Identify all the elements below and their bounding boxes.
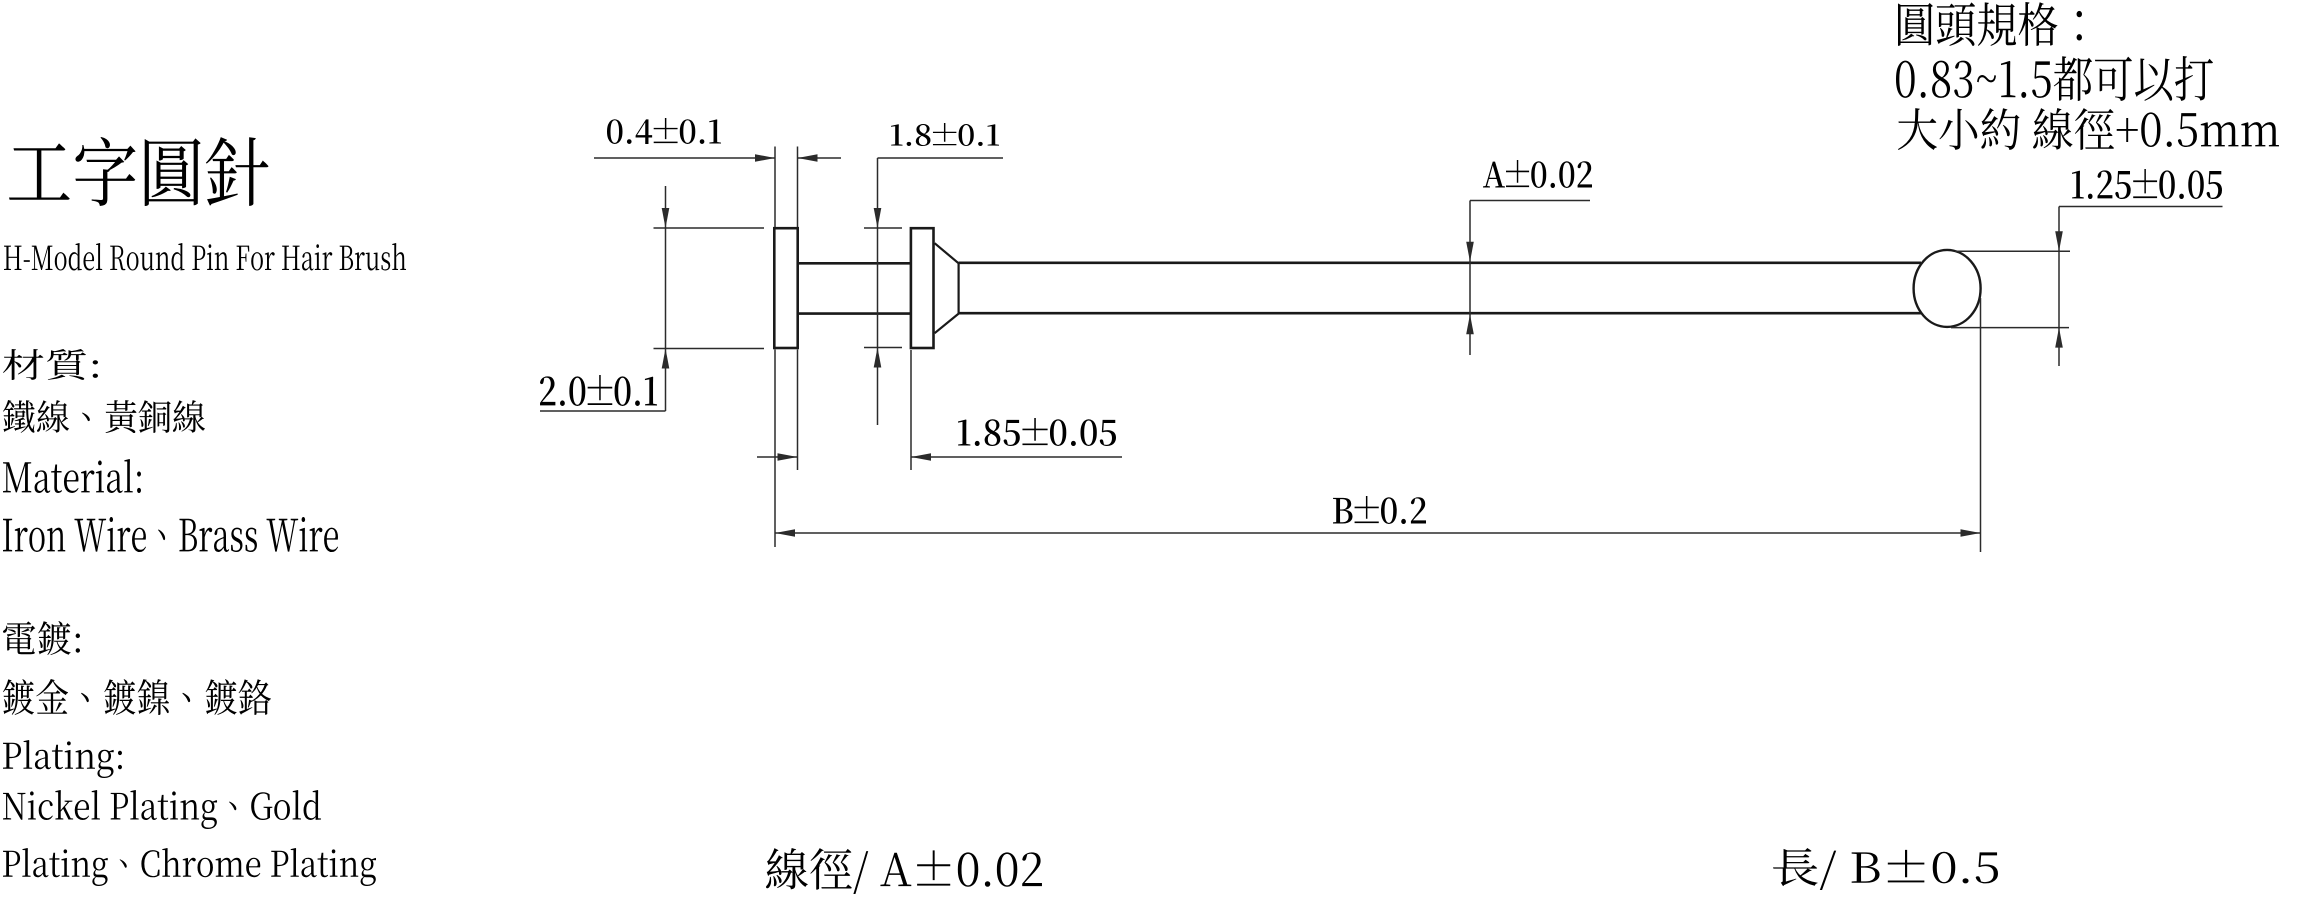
label Plating、Chrome Plating: [3, 848, 376, 886]
dimension A±0.02 leader and arrows: [1470, 200, 1590, 202]
pin flange 1 (left disc): [774, 228, 797, 348]
dimension text 1.8±0.1: [891, 123, 999, 146]
note 圓頭規格:: [1898, 2, 2082, 46]
extension lines at flange 1 edges (bottom, to B and 1.85): [774, 350, 776, 548]
round head ball: [1914, 250, 1981, 327]
label Nickel Plating、Gold: [3, 790, 321, 829]
pin neck between flanges: [798, 262, 911, 265]
cone transition after flange 2: [935, 243, 959, 333]
dimension text A±0.02: [1483, 160, 1592, 188]
note 大小約 線徑+0.5mm: [1898, 108, 2279, 150]
label 材質:: [3, 349, 98, 380]
note 0.83~1.5都可以打: [1896, 56, 2213, 101]
label Material:: [3, 459, 141, 493]
extension line at ball right edge: [1980, 298, 1982, 552]
callout 長/ B±0.5: [1773, 848, 1998, 890]
dimension 0.4±0.1 lines and arrows: [594, 157, 775, 159]
callout 線徑/ A±0.02: [766, 848, 1042, 894]
subtitle H-Model Round Pin For Hair Brush: [4, 243, 406, 270]
dimension 1.25±0.05 leader and arrows: [2059, 206, 2223, 208]
dimension text 0.4±0.1: [607, 118, 721, 144]
dimension text 1.85±0.05: [958, 418, 1116, 446]
dimension text B±0.2: [1333, 496, 1426, 524]
dimension 2.0±0.1 lines and arrows: [665, 186, 667, 411]
dimension 1.85±0.05 lines and arrows: [757, 456, 798, 458]
dimension 1.8±0.1 leader and arrows: [878, 157, 1004, 159]
label Plating:: [3, 740, 122, 778]
dimension B±0.2 line and arrows: [775, 532, 1981, 534]
pin flange 2 (right disc): [911, 228, 934, 348]
title 工字圓針: [9, 137, 269, 206]
pin shaft (long wire): [959, 261, 1921, 264]
extension line at flange 2 left edge (bottom): [910, 350, 912, 470]
extension lines at flange 1 edges (top): [774, 147, 776, 228]
dimension text 1.25±0.05: [2072, 169, 2222, 199]
dimension text 2.0±0.1: [540, 375, 657, 406]
label Iron Wire、Brass Wire: [3, 517, 338, 552]
label 電鍍:: [3, 621, 80, 655]
label 鍍金、鍍鎳、鍍鉻: [3, 679, 271, 715]
label 鐵線、黃銅線: [3, 400, 205, 433]
